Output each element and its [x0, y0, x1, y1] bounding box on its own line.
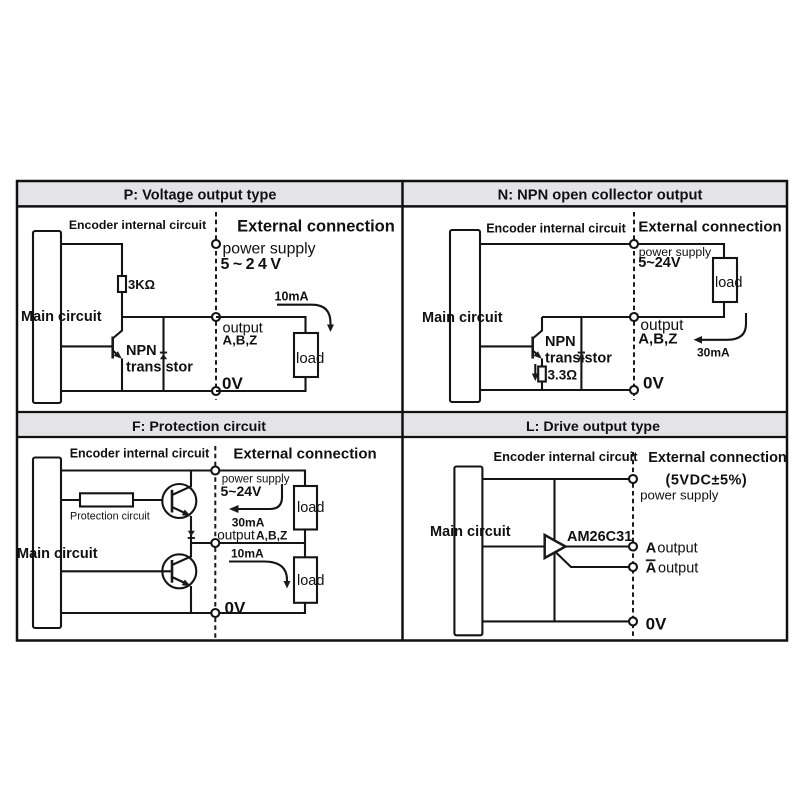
label 30mA with arrow (F)	[229, 484, 282, 530]
wire: main circuit to resistor top	[61, 244, 122, 276]
svg-text:10mA: 10mA	[275, 290, 309, 304]
svg-text:10mA: 10mA	[231, 547, 264, 561]
resistor R 3K ohm	[118, 276, 155, 292]
label A-bar output (L)	[646, 560, 699, 576]
wire: output line to collector (N)	[542, 316, 634, 318]
svg-text:Main circuit: Main circuit	[17, 546, 98, 562]
wire: A output (L)	[566, 545, 634, 547]
main circuit block U4	[430, 467, 511, 636]
terminal: output (N)	[630, 313, 638, 321]
svg-text:power supply: power supply	[640, 488, 719, 503]
svg-text:Encoder internal circuit: Encoder internal circuit	[69, 218, 206, 232]
svg-text:External connection: External connection	[233, 446, 376, 463]
wire: resistor to Q3 base (F)	[133, 499, 171, 501]
main circuit block U3	[17, 458, 98, 629]
svg-text:transistor: transistor	[126, 360, 193, 376]
label 30mA with arrow (N)	[694, 313, 747, 360]
wire: output terminal to load2 (F)	[215, 543, 305, 557]
svg-text:A: A	[646, 540, 657, 556]
svg-text:3.3Ω: 3.3Ω	[548, 368, 578, 383]
svg-text:NPN: NPN	[126, 343, 157, 359]
svg-text:External connection: External connection	[638, 219, 781, 236]
wire: output line to terminal	[122, 316, 216, 318]
load resistor (N)	[713, 258, 742, 302]
svg-text:5~24V: 5~24V	[221, 483, 263, 499]
wire: 0V line (F)	[61, 612, 215, 614]
wire: main circuit to power terminal (L)	[482, 478, 633, 480]
driver U5 AM26C31	[545, 529, 633, 558]
wire: 0V line (N)	[480, 389, 634, 391]
current arrow on emitter branch (F)	[188, 531, 195, 536]
svg-text:F: Protection circuit: F: Protection circuit	[132, 419, 266, 435]
wire: main circuit to power terminal (N)	[480, 243, 634, 245]
svg-text:A,B,Z: A,B,Z	[256, 529, 287, 543]
terminal: power supply (N)	[630, 240, 638, 248]
dashed boundary line (F)	[214, 446, 216, 641]
transistor Q3 NPN upper	[162, 471, 196, 544]
svg-text:load: load	[297, 573, 324, 589]
svg-text:output: output	[217, 528, 255, 543]
wire: parallel branch with current arrow	[160, 317, 167, 391]
label power supply 5~24V (N)	[638, 245, 712, 271]
wire: 0V to load2 bottom (F)	[215, 603, 305, 613]
svg-text:Main circuit: Main circuit	[422, 310, 503, 326]
svg-text:5~24V: 5~24V	[638, 255, 681, 271]
svg-text:A,B,Z: A,B,Z	[223, 333, 258, 348]
label power supply 5~24V (P)	[221, 241, 316, 273]
resistor R 3.3 ohm	[538, 367, 577, 383]
label output A,B,Z (P)	[223, 321, 263, 348]
transistor Q1 NPN	[113, 317, 194, 391]
svg-text:A,B,Z: A,B,Z	[638, 330, 677, 347]
wire: A-bar output (L)	[556, 553, 633, 568]
transistor Q2 NPN	[533, 317, 613, 367]
svg-text:L: Drive output type: L: Drive output type	[526, 419, 660, 435]
wire: resistor to output node	[121, 292, 123, 317]
terminal: output (F)	[211, 539, 219, 547]
wire: load1 to output line (F)	[304, 530, 306, 544]
label 10mA with arrow (P)	[275, 290, 335, 333]
svg-text:0V: 0V	[225, 599, 246, 618]
svg-text:0V: 0V	[646, 615, 667, 634]
table frame and header rows	[17, 181, 787, 641]
wire: internal vertical rail (L)	[553, 479, 555, 621]
wire: power terminal to load (N)	[634, 244, 724, 258]
svg-text:NPN: NPN	[545, 334, 576, 350]
terminal: 0V (L)	[629, 617, 637, 625]
wire: base from main circuit (N)	[480, 345, 532, 347]
wire: output terminal to load (P)	[216, 317, 306, 333]
dashed boundary line (P)	[215, 212, 217, 400]
svg-text:3KΩ: 3KΩ	[128, 277, 155, 292]
load resistor (P)	[294, 333, 324, 377]
main circuit block U2	[422, 230, 503, 402]
label A output (L)	[646, 540, 698, 556]
main circuit block U1	[21, 231, 102, 403]
transistor Q4 NPN lower	[162, 543, 196, 613]
wire: load to 0V line (P)	[216, 377, 306, 391]
label 10mA with arrow (F)	[229, 547, 291, 589]
svg-text:External connection: External connection	[648, 450, 787, 466]
dashed boundary line (N)	[633, 212, 635, 400]
svg-text:A: A	[646, 561, 657, 577]
terminal: output (P)	[212, 313, 220, 321]
label power supply 5~24V (F)	[221, 474, 290, 499]
terminal: 0V (F)	[211, 609, 219, 617]
wire: output line to terminal (F)	[191, 542, 215, 544]
wire: base from main circuit	[61, 345, 112, 347]
svg-text:P: Voltage output type: P: Voltage output type	[124, 188, 277, 204]
svg-text:Encoder internal circuit: Encoder internal circuit	[486, 221, 626, 235]
svg-text:5~24V: 5~24V	[221, 256, 285, 273]
svg-text:(5VDC±5%): (5VDC±5%)	[666, 473, 748, 489]
label output A,B,Z (N)	[638, 317, 684, 347]
load resistor upper (F)	[294, 486, 324, 530]
svg-text:Protection circuit: Protection circuit	[70, 511, 150, 523]
wire: base from main circuit to Q4 (F)	[61, 570, 171, 572]
terminal: power supply (L)	[629, 475, 637, 483]
svg-text:External connection: External connection	[237, 218, 395, 236]
svg-text:0V: 0V	[643, 374, 664, 393]
wire: 0V line (L)	[482, 620, 633, 622]
svg-text:load: load	[715, 275, 742, 291]
svg-text:load: load	[296, 350, 324, 367]
wire: main circuit to protection resistor (F)	[61, 499, 80, 501]
label (5VDC±5%) power supply (L)	[640, 473, 747, 503]
wire: parallel branch with current arrow (N)	[578, 317, 585, 390]
wire: main circuit to power terminal (F)	[61, 469, 215, 471]
terminal: 0V (P)	[212, 387, 220, 395]
svg-text:N: NPN open collector output: N: NPN open collector output	[498, 188, 703, 204]
wire: 0V line	[61, 390, 216, 392]
svg-text:Encoder internal circuit: Encoder internal circuit	[494, 449, 639, 464]
svg-text:output: output	[658, 561, 698, 577]
terminal: 0V (N)	[630, 386, 638, 394]
svg-text:AM26C31: AM26C31	[567, 529, 632, 545]
wire: resistor to 0V line (N)	[541, 382, 543, 391]
svg-text:30mA: 30mA	[697, 346, 730, 360]
terminal: power supply (F)	[211, 467, 219, 475]
svg-text:load: load	[297, 500, 324, 516]
protection resistor R	[70, 493, 150, 522]
svg-text:output: output	[657, 541, 697, 557]
terminal: power supply (P)	[212, 240, 220, 248]
wire: power terminal to load1 (F)	[215, 471, 305, 487]
wire: main circuit to driver input (L)	[482, 545, 546, 547]
svg-text:Main circuit: Main circuit	[21, 309, 102, 325]
wire: load to output line (N)	[634, 302, 724, 317]
svg-text:Encoder internal circuit: Encoder internal circuit	[70, 447, 210, 461]
current arrow at emitter resistor (N)	[532, 364, 539, 381]
label output A,B,Z (F)	[217, 528, 287, 543]
terminal: A-bar output (L)	[629, 563, 637, 571]
load resistor lower (F)	[294, 557, 324, 603]
dashed boundary line (L)	[632, 452, 634, 641]
svg-text:Main circuit: Main circuit	[430, 524, 511, 540]
terminal: A output (L)	[629, 543, 637, 551]
